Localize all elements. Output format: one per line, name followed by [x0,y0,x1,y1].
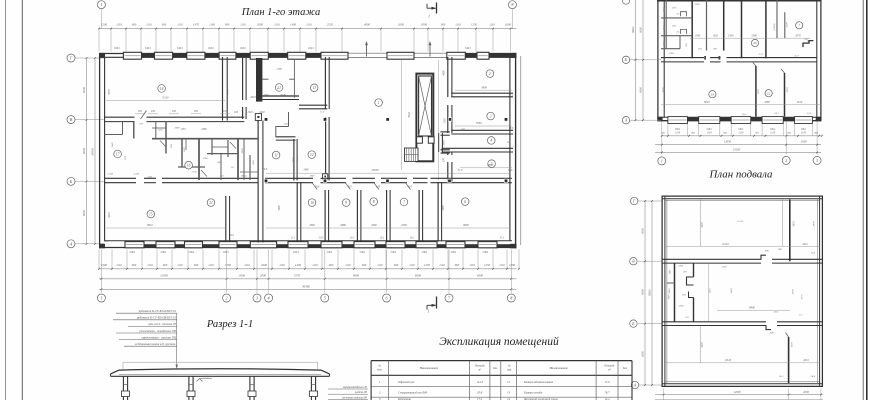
svg-text:2600: 2600 [261,263,268,267]
upper right plan left grid leaders [630,60,661,120]
svg-text:3: 3 [256,296,258,301]
upper right plan axis circle 2 [782,156,790,164]
svg-text:Кол: Кол [492,367,498,370]
svg-text:20.45: 20.45 [280,94,286,97]
section dimension box above roof [123,362,318,369]
svg-text:щебень 80: щебень 80 [355,391,368,394]
upper right plan top-left small dims [662,3,700,55]
explication table row 1 [379,380,610,384]
svg-text:50.1: 50.1 [230,234,235,237]
svg-text:Камера холода: Камера холода [523,391,543,395]
room circle 2 [486,70,494,78]
svg-text:2000: 2000 [264,94,270,97]
basement grid circle G [631,197,638,204]
svg-text:65.1: 65.1 [779,375,783,378]
svg-text:1000: 1000 [662,7,665,13]
svg-text:2520: 2520 [786,22,789,28]
elevator box with cross [419,76,432,136]
svg-text:1130: 1130 [158,129,164,132]
top dimension line [98,28,516,30]
svg-text:960: 960 [225,22,230,26]
svg-text:пом.: пом. [377,369,382,372]
svg-text:6: 6 [464,200,466,204]
room circle 16 [185,161,193,169]
svg-text:ОК1: ОК1 [738,128,744,131]
basement grid circle A [631,381,638,388]
bottom dimension line 3 overall [99,284,517,290]
svg-text:4000: 4000 [364,22,371,26]
grid row leaders main plan [75,58,104,244]
svg-text:11.1: 11.1 [291,237,296,240]
svg-text:11: 11 [274,153,278,157]
upper right plan bottom windows [668,117,812,124]
svg-text:18000: 18000 [91,148,95,156]
svg-text:ОК1: ОК1 [327,250,333,254]
svg-text:11610: 11610 [722,243,729,246]
svg-text:7640: 7640 [408,112,411,118]
svg-text:78.7: 78.7 [604,391,610,395]
interior dimension texts room 14 [106,89,230,101]
upper right plan axis circle 1 [658,157,666,165]
svg-text:1110: 1110 [240,22,246,26]
svg-text:ОК1: ОК1 [451,250,457,254]
svg-text:10.2: 10.2 [350,237,355,240]
room circle 3 [487,112,495,120]
svg-text:ж/бетонная плита к.8. пустот.: ж/бетонная плита к.8. пустот. [135,342,177,346]
upper right plan room circle 7 [796,22,803,29]
basement plan outer wall left [662,196,667,388]
svg-text:57.1: 57.1 [500,237,505,240]
svg-text:ОК1: ОК1 [189,250,195,254]
grid circle A [67,240,75,248]
room circle 21 lower [207,199,215,207]
roof layers note stack [113,309,177,346]
basement plan outer wall bottom [662,382,824,387]
svg-text:2040: 2040 [259,111,265,114]
svg-text:34.6: 34.6 [811,375,816,378]
svg-text:ОК1: ОК1 [223,250,229,254]
svg-text:8610: 8610 [147,224,153,227]
svg-text:Б: Б [69,179,73,184]
svg-text:2500: 2500 [669,52,675,55]
room circle 15 [147,210,155,218]
bottom band partition x327 lower [325,190,329,242]
upper right plan top band dim line [690,22,811,43]
svg-text:9: 9 [345,201,347,205]
svg-text:1360: 1360 [252,160,255,166]
structural column squares grid B [264,179,507,182]
interior thick wall axis-3 upper with pier [256,58,262,102]
svg-text:3000: 3000 [239,274,246,278]
svg-text:21.88: 21.88 [107,173,113,176]
svg-text:5970: 5970 [663,87,666,93]
svg-text:7: 7 [798,24,800,28]
svg-text:1: 1 [100,296,102,301]
basement bottom band partition [785,333,788,384]
svg-text:960: 960 [329,263,334,267]
svg-text:2440: 2440 [443,140,446,146]
interior wall vertical axis-2 [223,57,228,121]
svg-text:1200: 1200 [101,22,108,26]
svg-text:15.10: 15.10 [737,220,743,223]
svg-text:19: 19 [711,92,715,96]
interior wall between rooms 2 and 3 [451,93,513,97]
svg-text:5610: 5610 [108,212,111,218]
svg-text:5420: 5420 [709,288,712,294]
top dimension row small numbers [101,22,512,26]
svg-text:36580: 36580 [302,284,310,288]
upper right plan room circle 26 [751,39,758,46]
svg-text:ОК1: ОК1 [161,250,167,254]
room circle 4 [488,137,496,145]
svg-text:13.5: 13.5 [509,127,514,130]
svg-text:6000: 6000 [82,148,86,155]
room circle 14 [158,85,166,93]
upper right plan window labels [661,128,819,135]
interior wall room13 right [325,57,329,181]
svg-text:2000: 2000 [801,140,807,144]
svg-text:16.1: 16.1 [380,237,385,240]
svg-text:1110: 1110 [707,131,713,134]
svg-text:5610: 5610 [701,342,704,348]
svg-text:55.6: 55.6 [807,112,812,115]
svg-text:м²: м² [607,369,611,372]
svg-text:5800: 5800 [481,86,487,89]
svg-text:2: 2 [226,296,228,301]
door dimension texts above V-row [135,110,230,131]
svg-text:5970: 5970 [227,89,230,95]
svg-text:15110: 15110 [162,97,169,100]
upper right plan grid circle B [622,56,629,63]
title: Explikacia pomeshcheniy [439,335,559,348]
svg-text:Наименование: Наименование [548,366,568,370]
door leaves in B-row wall [312,182,413,189]
svg-text:1110: 1110 [177,263,183,267]
svg-text:ОК1: ОК1 [240,46,246,50]
svg-text:1110: 1110 [177,22,183,26]
svg-text:1150: 1150 [444,118,447,124]
svg-text:2420: 2420 [668,288,671,294]
svg-text:5: 5 [324,296,326,301]
svg-text:2070: 2070 [795,35,801,38]
svg-text:18000: 18000 [632,26,635,33]
upper right plan bottom dim line 1 [661,135,823,137]
thin extension line x438.5 [438,60,440,180]
svg-text:8990: 8990 [749,307,755,310]
column symbol above B-row x325 [323,174,328,179]
svg-text:ОК1: ОК1 [308,46,314,50]
main plan top wall piers [142,53,512,58]
explication table grid [371,361,632,400]
section columns [123,376,315,400]
grid circle V [67,116,75,124]
bottom row windows OK1 [125,242,497,248]
interior wall room13 bottom [299,105,327,109]
svg-text:1400: 1400 [290,22,297,26]
svg-text:4000: 4000 [443,70,446,76]
svg-text:1110: 1110 [801,131,807,134]
basement plan outer wall right [818,196,823,388]
upper right plan area labels top band [759,53,800,58]
upper right plan room circle 22 [765,90,772,97]
interior wall between rooms 3 and 4 [451,130,513,134]
svg-text:26: 26 [753,41,757,45]
svg-text:рубемаст К-СТ-БЭ-ПБ/ПП 3.5: рубемаст К-СТ-БЭ-ПБ/ПП 3.5 [136,316,177,320]
svg-text:22: 22 [767,91,771,95]
svg-text:1: 1 [378,101,380,105]
upper right plan top band partitions [707,0,785,58]
svg-text:1250: 1250 [284,123,290,126]
room circle 9 [342,199,350,207]
svg-text:№: № [507,365,511,368]
bottom band partition x359 [357,190,361,242]
svg-text:2610: 2610 [250,96,256,99]
bottom extension lines [99,250,519,269]
upper right plan bottom dim line 3 [655,148,821,154]
explication table row 2 [379,391,610,395]
svg-text:2.11: 2.11 [759,53,763,56]
room circle 17 [114,150,122,158]
svg-text:36.4: 36.4 [811,252,816,255]
main plan right wall [510,53,521,248]
upper right plan grid circle V top edge [622,0,629,4]
svg-text:6000: 6000 [642,351,645,357]
interior wall V-row right segment [227,117,245,121]
svg-text:Обрезной цех: Обрезной цех [398,380,415,384]
svg-text:1110: 1110 [279,263,285,267]
interior dimension texts left cluster [107,123,255,179]
svg-text:м²: м² [477,369,481,372]
svg-text:2040: 2040 [247,111,253,114]
svg-text:2000: 2000 [260,274,267,278]
svg-text:1250: 1250 [471,22,478,26]
bottom dimension line 2 axis distances [99,274,517,280]
room circle 8 [370,198,378,206]
svg-text:58.1: 58.1 [775,112,779,115]
svg-text:А: А [69,241,73,246]
svg-text:1000: 1000 [662,41,665,47]
svg-text:24.3: 24.3 [508,94,513,97]
grid circle B [67,177,75,185]
section cut mark 1 bottom [427,297,437,314]
svg-text:6000: 6000 [640,87,643,93]
svg-text:1: 1 [100,2,102,7]
bottom window labels OK1 [130,250,489,254]
svg-text:6000: 6000 [353,274,360,278]
room 12 dimension texts [292,157,309,172]
svg-text:1110: 1110 [738,131,744,134]
svg-text:2500: 2500 [678,265,684,268]
svg-text:21: 21 [209,201,213,205]
svg-text:рубемаст К-СТ-БЭ-К/ПП 5.0: рубемаст К-СТ-БЭ-К/ПП 5.0 [138,309,177,313]
svg-text:1000: 1000 [101,263,108,267]
bottom axis extension lines [101,250,511,293]
note stack leader arrow [176,313,178,369]
svg-text:Наименование: Наименование [419,366,439,370]
interior dimension texts room 15 [106,212,226,228]
svg-text:ОК1: ОК1 [145,46,151,50]
upper right plan bottom band partitions [753,62,785,117]
upper right plan top wall line [657,0,821,2]
svg-text:14: 14 [160,87,164,91]
svg-text:2500: 2500 [679,305,685,308]
svg-text:960: 960 [362,263,367,267]
room circle 7 [400,198,408,206]
svg-text:960: 960 [132,22,137,26]
svg-text:1000: 1000 [505,22,512,26]
svg-text:песчаная подушка 80: песчаная подушка 80 [342,396,368,399]
upper right plan left vertical dims [632,0,644,121]
svg-text:1: 1 [428,15,430,19]
svg-text:2960: 2960 [371,224,377,227]
svg-text:5980: 5980 [442,205,445,211]
basement cluster small dims [668,265,712,320]
svg-text:2: 2 [785,159,787,163]
svg-text:2980: 2980 [296,155,299,161]
svg-text:06.25: 06.25 [241,175,247,178]
explication table header texts [377,365,628,372]
section column bases [122,385,318,397]
svg-text:1520: 1520 [183,147,186,153]
interior thick wall axis 3-4 vertical [258,121,263,243]
room circle 5 [488,160,496,168]
svg-text:11610: 11610 [725,359,732,362]
upper right plan top-left small rooms [661,0,692,58]
interior wall room12 left [276,111,325,181]
bottom band partition x388 [387,190,391,242]
svg-text:-1.500: -1.500 [202,376,210,379]
svg-text:(2340): (2340) [773,24,776,31]
svg-text:2600: 2600 [257,22,264,26]
axis circle 6 [383,294,391,302]
svg-text:1540: 1540 [217,161,223,164]
svg-text:2680: 2680 [340,224,346,227]
explication table row 3 partial [379,397,610,400]
svg-text:6000: 6000 [415,274,422,278]
bottom band partition x299 [297,182,301,242]
svg-text:2970: 2970 [786,87,789,93]
svg-text:2080: 2080 [764,101,770,104]
svg-text:3420: 3420 [668,294,671,300]
svg-text:2000: 2000 [401,224,407,227]
interior wall between rooms 4 and 5 [442,148,513,152]
svg-text:2070: 2070 [801,294,804,300]
svg-text:17.6: 17.6 [508,169,513,172]
interior wall B-row segments [104,178,512,182]
svg-text:1110: 1110 [274,22,280,26]
svg-text:ОК1: ОК1 [422,250,428,254]
room circle 12 [308,151,316,159]
axis circle 5 [321,294,329,302]
svg-text:2960: 2960 [309,224,315,227]
svg-text:ОК1: ОК1 [293,250,299,254]
svg-text:13: 13 [312,86,316,90]
svg-text:1110: 1110 [455,22,461,26]
top window labels OK1 [114,46,471,50]
upper right plan door jamb marks in B wall [698,48,720,60]
svg-text:1130: 1130 [181,128,187,131]
svg-text:1110: 1110 [146,22,152,26]
svg-text:5980: 5980 [278,205,281,211]
svg-text:4: 4 [490,139,492,143]
svg-text:1620: 1620 [713,35,719,38]
interior wall room21 top [262,96,299,100]
svg-text:18000: 18000 [649,289,652,296]
main plan bottom wall [99,241,517,249]
svg-text:1110: 1110 [770,131,776,134]
svg-text:керамзитобетон 30: керамзитобетон 30 [343,386,367,389]
svg-text:12000: 12000 [160,274,168,278]
svg-text:6000: 6000 [642,289,645,295]
svg-text:Разрез 1-1: Разрез 1-1 [206,319,253,330]
top axis circle 8 [508,1,516,30]
svg-text:1500: 1500 [728,35,734,38]
svg-text:3880: 3880 [487,164,493,167]
svg-text:1110: 1110 [469,263,475,267]
svg-text:ОК1: ОК1 [208,46,214,50]
svg-text:1700: 1700 [276,68,282,71]
svg-text:2610: 2610 [797,101,803,104]
svg-text:ОК1: ОК1 [130,250,136,254]
svg-text:1420: 1420 [662,25,665,31]
svg-text:Площадь: Площадь [603,365,615,368]
basement thin extension lines [701,200,783,363]
bottom band partition x421 [419,190,423,242]
svg-text:1110: 1110 [345,263,351,267]
svg-text:1485: 1485 [669,269,672,275]
grid circle G [67,54,75,62]
svg-text:5610: 5610 [791,342,794,348]
svg-text:8: 8 [373,200,375,204]
svg-text:2970: 2970 [813,221,816,227]
svg-text:2120: 2120 [192,171,198,174]
axis circle 3 [253,294,261,302]
svg-text:1110: 1110 [499,263,505,267]
svg-text:960: 960 [441,22,446,26]
svg-text:6000: 6000 [82,87,86,94]
svg-text:1470: 1470 [193,22,200,26]
axis circle 1 [97,294,105,302]
svg-text:1110: 1110 [409,263,415,267]
interior wall V-row left segment [104,117,135,121]
svg-text:5570: 5570 [294,274,301,278]
main plan bottom wall piers [144,244,510,248]
svg-text:Сепараторный цех ФН: Сепараторный цех ФН [398,391,428,395]
svg-text:2380: 2380 [752,35,758,38]
upper right plan bottom wall piers [687,117,794,121]
svg-text:1380: 1380 [203,157,209,160]
section cut mark 1 top [427,3,437,19]
svg-text:1250: 1250 [424,263,431,267]
svg-text:4: 4 [268,296,270,301]
svg-text:ОК1: ОК1 [675,128,681,131]
svg-text:6000: 6000 [642,228,645,234]
svg-text:16.6: 16.6 [263,168,268,171]
svg-text:5470: 5470 [757,89,760,95]
svg-text:ОК1: ОК1 [465,46,471,50]
room circle 13 [310,84,318,92]
svg-text:№: № [377,365,381,368]
elevator base squares [417,137,434,143]
svg-text:3: 3 [816,159,818,163]
svg-text:2080: 2080 [201,128,207,131]
upper right plan right wall [817,0,821,121]
bottom dimension line 1 [98,268,520,270]
svg-text:ОК1: ОК1 [483,250,489,254]
svg-text:15200: 15200 [733,148,741,152]
room circle 21 upper [275,84,283,92]
svg-text:5980: 5980 [292,157,295,163]
